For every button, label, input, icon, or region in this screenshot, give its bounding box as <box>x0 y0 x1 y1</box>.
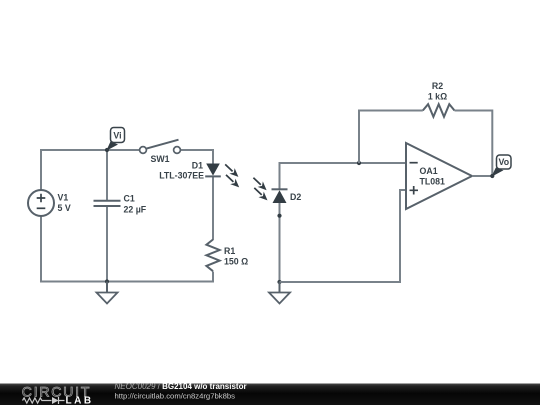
svg-text:V1: V1 <box>58 193 69 203</box>
ground (left) <box>97 282 118 304</box>
light arrow from D1 (upper) <box>223 162 241 180</box>
junction dot at ground 1 <box>105 279 109 283</box>
ground (right) <box>269 282 290 304</box>
node Vi flag <box>106 128 124 151</box>
wire top rail from V1 to SW1 <box>41 150 141 190</box>
switch SW1 <box>140 140 181 164</box>
junction dot at feedback node <box>357 161 361 165</box>
footer url line <box>115 392 236 401</box>
wire D1 to R1 <box>212 177 214 241</box>
node Vo flag <box>491 155 511 177</box>
svg-text:1 kΩ: 1 kΩ <box>428 91 447 101</box>
svg-text:150 Ω: 150 Ω <box>224 257 248 267</box>
wire D2 bottom <box>279 203 281 282</box>
svg-text:C1: C1 <box>124 194 135 204</box>
svg-text:22 µF: 22 µF <box>124 205 147 215</box>
wire op-amp output <box>472 175 492 177</box>
wire R2 to output node <box>455 111 493 177</box>
wire bottom to op-amp plus input <box>280 190 407 282</box>
svg-text:D2: D2 <box>290 192 301 202</box>
wire SW1 to D1 <box>179 150 213 164</box>
svg-text:LTL-307EE: LTL-307EE <box>159 171 204 181</box>
svg-text:OA1: OA1 <box>420 166 438 176</box>
wire C1 bottom branch <box>106 206 108 282</box>
junction dot at ground 2 <box>277 280 281 284</box>
photodiode D2 <box>272 189 302 203</box>
svg-text:NEOC0029 / BG2104 w/o transist: NEOC0029 / BG2104 w/o transistor <box>115 382 247 391</box>
resistor R1 <box>206 240 248 272</box>
wire R1 to bottom rail <box>41 216 213 282</box>
svg-text:R2: R2 <box>432 81 443 91</box>
svg-text:Vi: Vi <box>113 130 121 140</box>
svg-text:D1: D1 <box>192 161 203 171</box>
light arrow into D2 (upper) <box>251 175 269 193</box>
light arrow into D2 (lower) <box>252 185 270 203</box>
junction dot at Vi node <box>105 148 109 152</box>
CircuitLab logo CIRCUIT text <box>22 383 91 399</box>
terminal dot below D2 <box>277 214 281 218</box>
svg-text:SW1: SW1 <box>151 154 170 164</box>
svg-text:TL081: TL081 <box>420 176 446 186</box>
junction dot at output node <box>490 174 494 178</box>
svg-text:http://circuitlab.com/cn8z4rg7: http://circuitlab.com/cn8z4rg7bk8bs <box>115 392 236 401</box>
footer bar <box>0 384 540 405</box>
wire C1 top branch <box>106 150 108 200</box>
capacitor C1 <box>94 194 147 215</box>
LED D1 <box>159 161 221 181</box>
svg-text:Vo: Vo <box>499 157 510 167</box>
wire D2 top to op-amp minus input <box>280 163 407 189</box>
svg-text:R1: R1 <box>224 246 235 256</box>
CircuitLab logo resistor-diode glyph <box>23 397 65 404</box>
voltage source V1 <box>28 190 71 216</box>
footer title line <box>115 382 247 391</box>
resistor R2 <box>423 81 455 117</box>
CircuitLab logo LAB text <box>66 395 94 405</box>
light arrow from D1 (lower) <box>223 172 241 190</box>
op-amp OA1 <box>406 143 472 209</box>
wire feedback up from minus input <box>359 111 423 164</box>
svg-text:LAB: LAB <box>66 395 94 405</box>
svg-text:5 V: 5 V <box>58 203 71 213</box>
